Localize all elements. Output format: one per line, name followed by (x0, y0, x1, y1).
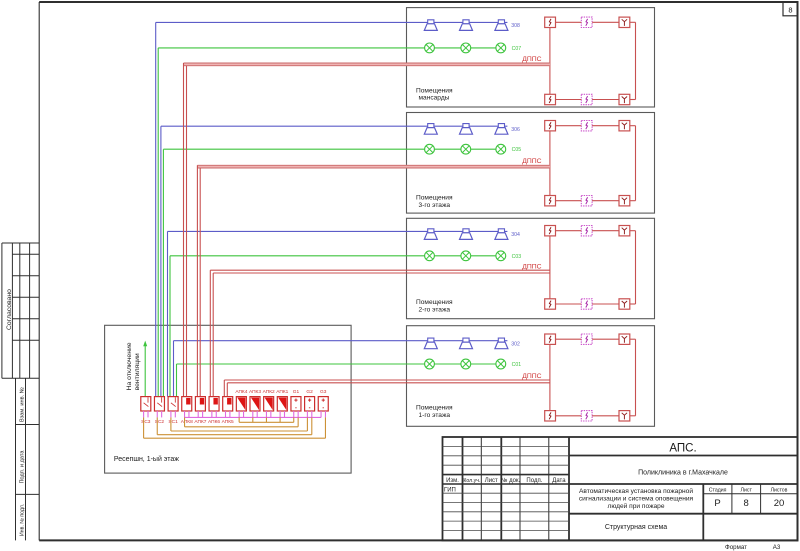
svg-text:АПК5: АПК5 (222, 419, 234, 425)
wire loop floor 1: right stub top (630, 338, 636, 340)
line below name cell (569, 513, 798, 515)
svg-text:А3: А3 (773, 544, 781, 551)
pins of module АПК8 (184, 411, 186, 417)
wire: magenta bus (185, 416, 321, 418)
svg-text:8: 8 (788, 6, 792, 15)
call point U22 (top row) (581, 226, 592, 236)
call point U12 (top row) (581, 334, 592, 344)
sheet number box (783, 2, 798, 16)
svg-text:308: 308 (511, 23, 520, 29)
wire loop floor 2: left riser (549, 236, 551, 299)
call point U25 (bottom row) (581, 299, 592, 309)
title block column (462, 437, 464, 540)
module SC3 (141, 397, 151, 411)
svg-text:ДППС: ДППС (522, 158, 541, 165)
lamp 2 floor 3 (461, 144, 471, 154)
svg-text:Согласовано: Согласовано (6, 289, 13, 330)
stamp row line (12, 296, 39, 298)
stamp outer left edge (1, 243, 3, 378)
svg-text:Помещения: Помещения (416, 195, 453, 202)
module SC2 (154, 397, 164, 411)
detector U31 (top row) (545, 121, 556, 131)
call point U15 (bottom row) (581, 411, 592, 421)
lamp 1 floor 2 (425, 251, 435, 261)
detector U44 (bottom row) (545, 94, 556, 104)
loudspeaker 2 floor 2 (460, 229, 473, 240)
stamp row line (12, 275, 39, 277)
pins of module АПК7 (197, 411, 199, 417)
svg-text:С05: С05 (512, 147, 522, 153)
wire: lamp feed floor 4 vertical (157, 48, 159, 397)
title block row (443, 511, 570, 513)
svg-text:АПС.: АПС. (669, 443, 696, 455)
wire: speaker feed floor 2 vertical (167, 231, 169, 396)
wire: speaker feed floor 4 horizontal (156, 21, 407, 23)
module АПК8 (182, 397, 192, 411)
line below object cell (569, 483, 798, 485)
svg-text:АПК4: АПК4 (235, 389, 247, 395)
frame right border (797, 1, 799, 541)
detector U41 (top row) (545, 17, 556, 27)
svg-text:G2: G2 (306, 389, 313, 395)
lamp 1 floor 4 (425, 43, 435, 53)
svg-text:1-го этажа: 1-го этажа (419, 412, 451, 419)
stadia column (731, 484, 733, 514)
svg-text:Взам. инв. №: Взам. инв. № (19, 387, 25, 422)
wire: DPPS loop floor 4 vertical a (183, 63, 185, 397)
svg-text:ДППС: ДППС (522, 263, 541, 270)
wire: lamp feed floor 2 horizontal (170, 255, 407, 257)
pins of module G1 (293, 411, 295, 417)
module SC1 (168, 397, 178, 411)
call point U42 (top row) (581, 17, 592, 27)
svg-text:Кол.уч.: Кол.уч. (463, 478, 480, 484)
module G1 (291, 397, 301, 411)
wire loop floor 2: bottom row link 2 (592, 303, 619, 305)
pins of module АПК4 (238, 411, 240, 417)
wire: lamp feed floor 1 horizontal (177, 363, 407, 365)
title block outline (443, 437, 798, 540)
floor block 1 outline (407, 326, 655, 427)
lamp 2 floor 1 (461, 359, 471, 369)
wire loop floor 3: left riser (549, 131, 551, 196)
wire loop floor 4: right stub top (630, 21, 636, 23)
stadia column (760, 484, 762, 514)
module G3 (318, 397, 328, 411)
wire loop floor 4: top row link 1 (556, 21, 582, 23)
svg-text:8: 8 (744, 498, 749, 509)
wire: vent shutdown output (144, 345, 146, 397)
svg-text:ДППС: ДППС (522, 373, 541, 380)
title block header bottom (443, 483, 570, 485)
wire loop floor 4: top row link 2 (592, 21, 619, 23)
stamp label column left (15, 378, 17, 540)
frame top border (39, 1, 797, 3)
floor block 2 outline (407, 218, 655, 318)
svg-text:Лист: Лист (741, 488, 753, 494)
wire: speaker line floor 2 (407, 230, 508, 232)
wire loop floor 1: bottom row link 1 (556, 415, 582, 417)
svg-text:С07: С07 (512, 46, 522, 52)
title block row (443, 529, 570, 531)
call point U45 (bottom row) (581, 94, 592, 104)
pins of module SC1 (170, 411, 172, 417)
wire loop floor 2: top row link 2 (592, 230, 619, 232)
wire: DPPS loop floor 2 horizontal b (213, 272, 550, 274)
wire: speaker feed floor 1 horizontal (174, 340, 407, 342)
svg-text:Поликлиника в г.Махачкале: Поликлиника в г.Махачкале (638, 470, 728, 477)
pins of module SC3 (143, 411, 145, 417)
floor block 4 outline (407, 8, 655, 107)
wire loop floor 2: right stub bottom (630, 303, 636, 305)
detector U24 (bottom row) (545, 299, 556, 309)
lamp 1 floor 3 (425, 144, 435, 154)
stamp top edge (2, 242, 39, 244)
title block row (443, 492, 570, 494)
wire: DPPS loop floor 2 vertical a (209, 270, 211, 396)
wire: speaker line floor 3 (407, 125, 508, 127)
module АПК4 (236, 397, 246, 411)
title block header top (443, 474, 570, 476)
wire: DPPS loop floor 4 horizontal (thick pair) (184, 63, 550, 67)
title block column (519, 437, 521, 540)
reception room outline (105, 325, 352, 473)
stamp row line (12, 253, 39, 255)
stamp row line (12, 318, 39, 320)
module АПК6 (209, 397, 219, 411)
pins of module АПК6 (211, 411, 213, 417)
svg-text:Помещения: Помещения (416, 87, 453, 94)
lamp 2 floor 2 (461, 251, 471, 261)
loudspeaker 3 floor 3 (495, 124, 508, 135)
loudspeaker 2 floor 4 (460, 20, 473, 31)
sounder U46 (bottom row) (619, 94, 630, 104)
wire loop floor 2: top row link 1 (556, 230, 582, 232)
wire loop floor 3: right stub bottom (630, 200, 636, 202)
sounder U26 (bottom row) (619, 299, 630, 309)
loudspeaker 1 floor 3 (424, 124, 437, 135)
lamp 2 floor 4 (461, 43, 471, 53)
wire loop floor 2: right riser (635, 231, 637, 304)
wire: DPPS loop floor 2 vertical b (212, 273, 214, 397)
wire: orange link APK8-G1 (184, 417, 186, 426)
svg-text:Подп. и дата: Подп. и дата (19, 450, 25, 484)
detector U14 (bottom row) (545, 411, 556, 421)
svg-text:Р: Р (714, 498, 720, 509)
wire: DPPS loop floor 1 horizontal a (224, 379, 550, 381)
pins of module АПК1 (279, 411, 281, 417)
svg-text:АПК2: АПК2 (263, 389, 275, 395)
loudspeaker 3 floor 2 (495, 229, 508, 240)
wire: DPPS loop floor 3 vertical a (196, 165, 198, 396)
wire loop floor 1: bottom row link 2 (592, 415, 619, 417)
svg-text:SC3: SC3 (141, 419, 151, 425)
svg-text:АПК7: АПК7 (194, 419, 206, 425)
svg-text:вентиляции: вентиляции (134, 353, 141, 390)
wire: orange link APK4-G1 (238, 417, 240, 422)
wire: lamp line floor 1 (407, 363, 506, 365)
svg-text:ГИП: ГИП (444, 487, 456, 493)
svg-text:Изм.: Изм. (446, 478, 459, 484)
wire: lamp line floor 2 (407, 255, 506, 257)
wire loop floor 1: left riser (549, 344, 551, 410)
wire: speaker line floor 1 (407, 340, 508, 342)
title block row (443, 464, 570, 466)
sounder U23 (top row) (619, 226, 630, 236)
lamp 3 floor 1 (496, 359, 506, 369)
svg-text:Структурная схема: Структурная схема (605, 524, 667, 531)
pins of module АПК2 (265, 411, 267, 417)
wire: speaker feed floor 4 vertical (155, 22, 157, 396)
svg-text:АПК1: АПК1 (276, 389, 288, 395)
lamp 3 floor 2 (496, 251, 506, 261)
wire loop floor 4: bottom row link 1 (556, 99, 582, 101)
wire: orange link SC2-G2 (156, 417, 158, 434)
svg-text:20: 20 (774, 498, 785, 509)
detector U21 (top row) (545, 226, 556, 236)
title block row (443, 520, 570, 522)
wire loop floor 3: right riser (635, 126, 637, 201)
module АПК2 (264, 397, 274, 411)
svg-text:3-го этажа: 3-го этажа (419, 202, 451, 209)
title block column (548, 437, 550, 540)
wire loop floor 3: top row link 2 (592, 125, 619, 127)
svg-text:Формат: Формат (725, 544, 747, 551)
svg-text:АПК3: АПК3 (249, 389, 261, 395)
wire: lamp feed floor 3 horizontal (163, 148, 406, 150)
wire loop floor 3: bottom row link 2 (592, 200, 619, 202)
wire: lamp line floor 3 (407, 148, 506, 150)
wire: DPPS loop floor 4 vertical b (186, 66, 188, 397)
title block column (480, 437, 482, 540)
frame left border (38, 2, 40, 540)
wire: DPPS loop floor 1 vertical a (223, 380, 225, 397)
loudspeaker 1 floor 4 (424, 20, 437, 31)
stadia header underline (703, 493, 797, 495)
loudspeaker 1 floor 1 (424, 338, 437, 349)
wire loop floor 4: right stub bottom (630, 99, 636, 101)
pins of module АПК3 (252, 411, 254, 417)
stamp divider (19, 243, 21, 378)
stamp row line (12, 339, 39, 341)
wire loop floor 2: right stub top (630, 230, 636, 232)
wire: DPPS loop floor 3 horizontal (thick pair) (197, 165, 550, 169)
svg-text:С03: С03 (512, 254, 522, 260)
loudspeaker 3 floor 1 (495, 338, 508, 349)
wire loop floor 4: bottom row link 2 (592, 99, 619, 101)
svg-text:мансарды: мансарды (419, 95, 450, 102)
svg-text:Листов: Листов (771, 488, 788, 494)
svg-text:На отключение: На отключение (126, 342, 133, 390)
sounder U16 (bottom row) (619, 411, 630, 421)
wire loop floor 1: top row link 1 (556, 338, 582, 340)
wire: lamp line floor 4 (407, 47, 506, 49)
lamp 3 floor 4 (496, 43, 506, 53)
module АПК5 (223, 397, 233, 411)
title block row (443, 445, 570, 447)
wire: speaker feed floor 1 vertical (173, 341, 175, 397)
svg-text:Стадия: Стадия (709, 488, 727, 494)
pins of module АПК5 (225, 411, 227, 417)
svg-text:Дата: Дата (552, 478, 566, 484)
wire: DPPS loop floor 2 horizontal a (210, 269, 550, 271)
svg-text:сигнализации и система оповеще: сигнализации и система оповещения (579, 495, 694, 502)
svg-text:АПК8: АПК8 (181, 419, 193, 425)
stamp divider vertical (25, 378, 27, 540)
call point U35 (bottom row) (581, 196, 592, 206)
wire: speaker line floor 4 (407, 21, 508, 23)
wire loop floor 1: right riser (635, 339, 637, 416)
module G2 (305, 397, 315, 411)
pins of module G3 (320, 411, 322, 417)
module АПК7 (195, 397, 205, 411)
title block row (443, 502, 570, 504)
pins of module G2 (306, 411, 308, 417)
svg-text:Помещения: Помещения (416, 299, 453, 306)
svg-text:ДППС: ДППС (522, 56, 541, 63)
wire: orange link SC3-G3 (143, 417, 145, 438)
call point U32 (top row) (581, 121, 592, 131)
loudspeaker 2 floor 1 (460, 338, 473, 349)
floor block 3 outline (407, 113, 655, 214)
svg-text:Инв. № подл.: Инв. № подл. (19, 504, 25, 536)
title block row (443, 455, 570, 457)
wire loop floor 2: bottom row link 1 (556, 303, 582, 305)
wire loop floor 3: top row link 1 (556, 125, 582, 127)
svg-text:Автоматическая установка пожар: Автоматическая установка пожарной (579, 487, 693, 495)
svg-text:№ док.: № док. (501, 477, 521, 484)
sounder U13 (top row) (619, 334, 630, 344)
title block column (568, 437, 570, 540)
wire loop floor 3: bottom row link 1 (556, 200, 582, 202)
wire loop floor 1: right stub bottom (630, 415, 636, 417)
wire: orange link SC1-G2 (170, 417, 172, 431)
stamp box Soglasovano (11, 243, 13, 378)
wire: speaker feed floor 3 horizontal (161, 125, 407, 127)
svg-text:людей при пожаре: людей при пожаре (607, 502, 664, 510)
svg-text:SC2: SC2 (155, 419, 165, 425)
wire: lamp feed floor 3 vertical (162, 149, 164, 396)
svg-text:Помещения: Помещения (416, 405, 453, 412)
svg-text:Подп.: Подп. (526, 478, 542, 484)
svg-text:2-го этажа: 2-го этажа (419, 306, 451, 313)
wire: lamp feed floor 4 horizontal (158, 47, 406, 49)
stamp box line (16, 493, 40, 495)
wire: speaker feed floor 3 vertical (160, 126, 162, 396)
lamp 3 floor 3 (496, 144, 506, 154)
wire loop floor 1: top row link 2 (592, 338, 619, 340)
lamp 1 floor 1 (425, 359, 435, 369)
svg-text:Лист: Лист (485, 478, 498, 484)
loudspeaker 3 floor 4 (495, 20, 508, 31)
stadia column left (702, 484, 704, 540)
loudspeaker 1 floor 2 (424, 229, 437, 240)
svg-text:304: 304 (511, 232, 520, 238)
detector U11 (top row) (545, 334, 556, 344)
arrowhead vent output (143, 341, 147, 347)
detector U34 (bottom row) (545, 196, 556, 206)
stamp section divider (2, 377, 39, 379)
wire loop floor 4: right riser (635, 22, 637, 99)
wire: DPPS loop floor 1 vertical b (226, 383, 228, 397)
sounder U36 (bottom row) (619, 196, 630, 206)
svg-text:С01: С01 (512, 362, 522, 368)
svg-text:302: 302 (511, 342, 520, 348)
svg-text:Ресепшн, 1-ый этаж: Ресепшн, 1-ый этаж (114, 455, 179, 463)
wire: DPPS loop floor 3 vertical b (199, 168, 201, 397)
line below APS cell (569, 455, 798, 457)
wire loop floor 4: left riser (549, 28, 551, 95)
svg-text:SC1: SC1 (168, 419, 178, 425)
sounder U33 (top row) (619, 121, 630, 131)
loudspeaker 2 floor 3 (460, 124, 473, 135)
svg-text:G3: G3 (320, 389, 327, 395)
module АПК3 (250, 397, 260, 411)
svg-text:G1: G1 (293, 389, 300, 395)
wire: lamp feed floor 2 vertical (169, 256, 171, 397)
wire: speaker feed floor 2 horizontal (168, 230, 407, 232)
svg-text:306: 306 (511, 127, 520, 133)
stamp divider (29, 243, 31, 378)
pins of module SC2 (156, 411, 158, 417)
frame bottom border (39, 539, 797, 541)
module АПК1 (277, 397, 287, 411)
stamp box line (16, 424, 40, 426)
sounder U43 (top row) (619, 17, 630, 27)
title block column (500, 437, 502, 540)
svg-text:АПК6: АПК6 (208, 419, 220, 425)
wire: lamp feed floor 1 vertical (176, 364, 178, 397)
wire loop floor 3: right stub top (630, 125, 636, 127)
wire: DPPS loop floor 1 horizontal b (227, 382, 550, 384)
